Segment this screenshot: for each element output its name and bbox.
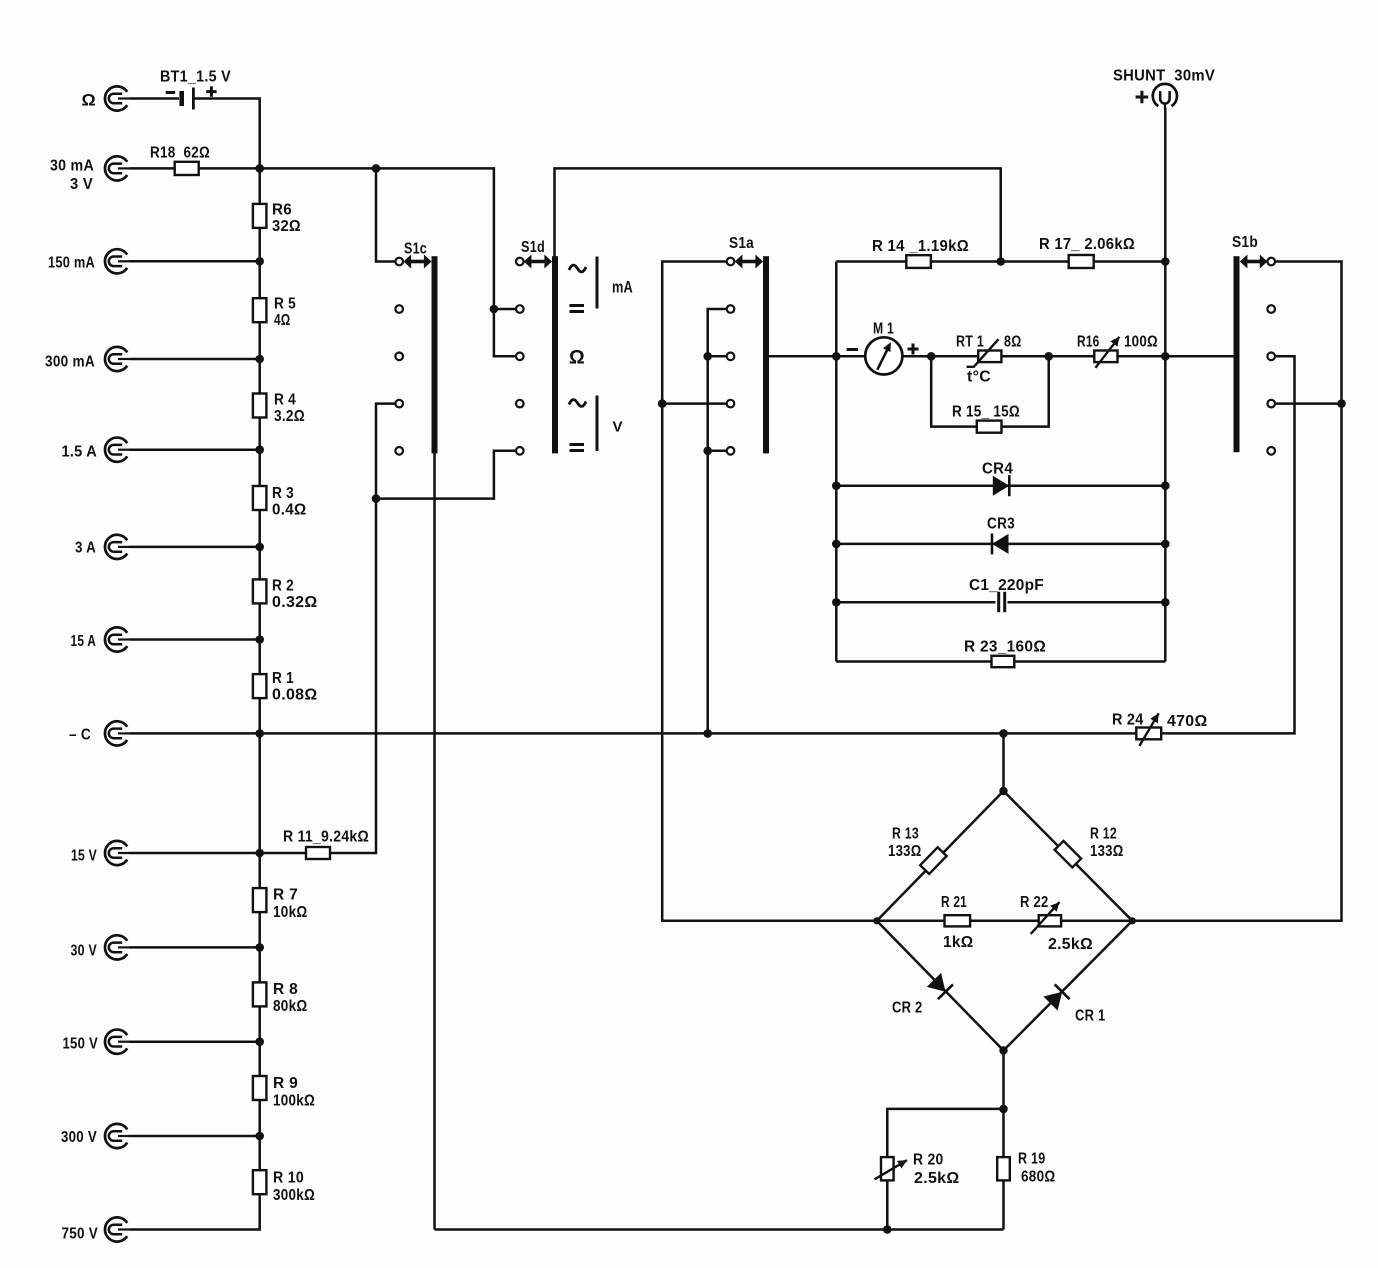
svg-text:CR 1: CR 1 <box>1075 1008 1106 1025</box>
svg-text:750 V: 750 V <box>62 1226 99 1243</box>
svg-text:2.5kΩ: 2.5kΩ <box>914 1170 960 1187</box>
svg-text:RT 1: RT 1 <box>956 334 984 351</box>
svg-text:R 23_160Ω: R 23_160Ω <box>964 639 1046 656</box>
svg-text:R 1: R 1 <box>272 670 294 687</box>
svg-text:– C: – C <box>69 727 91 744</box>
svg-text:R 13: R 13 <box>892 826 919 843</box>
svg-text:0.4Ω: 0.4Ω <box>272 502 307 519</box>
svg-text:1kΩ: 1kΩ <box>943 934 974 951</box>
svg-text:0.32Ω: 0.32Ω <box>272 594 318 611</box>
svg-text:10kΩ: 10kΩ <box>273 904 308 921</box>
svg-text:R 5: R 5 <box>274 296 296 313</box>
svg-text:R 14 _1.19kΩ: R 14 _1.19kΩ <box>872 238 969 255</box>
svg-text:100kΩ: 100kΩ <box>273 1093 315 1110</box>
svg-text:CR3: CR3 <box>987 516 1015 533</box>
svg-text:R 7: R 7 <box>273 887 298 904</box>
svg-text:150 V: 150 V <box>63 1036 99 1053</box>
svg-text:R 2: R 2 <box>272 578 294 595</box>
svg-text:R 10: R 10 <box>273 1170 304 1187</box>
svg-text:R 12: R 12 <box>1090 826 1117 843</box>
svg-text:300 mA: 300 mA <box>45 354 95 371</box>
svg-text:t°C: t°C <box>967 369 991 386</box>
svg-text:0.08Ω: 0.08Ω <box>272 687 318 704</box>
svg-text:R 20: R 20 <box>913 1152 944 1169</box>
svg-text:150 mA: 150 mA <box>48 255 95 272</box>
svg-text:S1a: S1a <box>729 235 754 252</box>
svg-text:80kΩ: 80kΩ <box>273 998 308 1015</box>
svg-text:30 V: 30 V <box>71 943 98 960</box>
svg-text:Ω: Ω <box>569 347 585 369</box>
svg-text:Ω: Ω <box>82 91 97 110</box>
svg-text:470Ω: 470Ω <box>1167 713 1208 730</box>
svg-text:32Ω: 32Ω <box>272 218 301 235</box>
svg-text:S1d: S1d <box>521 239 545 256</box>
svg-text:300 V: 300 V <box>61 1129 97 1146</box>
svg-text:133Ω: 133Ω <box>888 843 922 860</box>
svg-text:BT1_1.5 V: BT1_1.5 V <box>160 69 231 86</box>
svg-text:R 24: R 24 <box>1112 712 1144 729</box>
svg-text:3 A: 3 A <box>75 540 96 557</box>
svg-text:680Ω: 680Ω <box>1021 1169 1056 1186</box>
svg-text:4Ω: 4Ω <box>274 312 291 329</box>
svg-text:15 V: 15 V <box>71 848 97 865</box>
svg-text:CR4: CR4 <box>982 461 1013 478</box>
svg-text:R 15_ 15Ω: R 15_ 15Ω <box>952 404 1020 421</box>
svg-text:30 mA: 30 mA <box>50 158 94 175</box>
svg-text:R18 62Ω: R18 62Ω <box>150 145 210 162</box>
svg-text:15 A: 15 A <box>71 633 97 650</box>
svg-text:C1_220pF: C1_220pF <box>969 577 1044 594</box>
svg-text:V: V <box>613 419 623 436</box>
svg-text:R 4: R 4 <box>274 392 296 409</box>
svg-text:R 11_9.24kΩ: R 11_9.24kΩ <box>283 829 369 846</box>
svg-text:133Ω: 133Ω <box>1090 843 1124 860</box>
svg-text:R 9: R 9 <box>273 1075 298 1092</box>
svg-text:2.5kΩ: 2.5kΩ <box>1048 936 1093 953</box>
svg-text:8Ω: 8Ω <box>1004 334 1022 351</box>
svg-text:3.2Ω: 3.2Ω <box>274 408 305 425</box>
svg-text:S1c: S1c <box>404 241 427 258</box>
svg-text:R 3: R 3 <box>272 485 294 502</box>
svg-text:mA: mA <box>612 278 633 297</box>
svg-text:R6: R6 <box>272 202 292 219</box>
svg-text:R 17_ 2.06kΩ: R 17_ 2.06kΩ <box>1039 236 1135 253</box>
svg-text:300kΩ: 300kΩ <box>273 1187 315 1204</box>
svg-text:R 22: R 22 <box>1020 894 1049 911</box>
svg-text:1.5 A: 1.5 A <box>62 444 98 461</box>
svg-text:CR 2: CR 2 <box>892 1000 923 1017</box>
svg-text:R 19: R 19 <box>1018 1151 1046 1168</box>
svg-text:R 21: R 21 <box>941 894 967 911</box>
svg-text:S1b: S1b <box>1232 234 1258 251</box>
svg-text:3 V: 3 V <box>70 176 93 193</box>
svg-text:M 1: M 1 <box>873 321 894 338</box>
svg-text:R16: R16 <box>1077 334 1100 351</box>
svg-text:R 8: R 8 <box>273 981 298 998</box>
svg-text:100Ω: 100Ω <box>1124 334 1158 351</box>
svg-text:SHUNT 30mV: SHUNT 30mV <box>1113 68 1215 85</box>
